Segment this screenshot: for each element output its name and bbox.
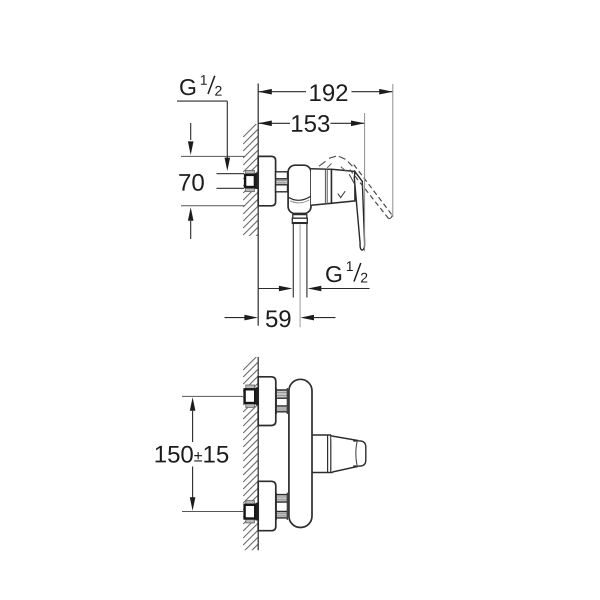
svg-text:1: 1: [200, 72, 208, 88]
dimension 153: [258, 122, 364, 124]
lever grip cone (plan): [331, 435, 358, 473]
extension line 153: [364, 113, 366, 251]
union nut (top view): [246, 170, 255, 173]
leader G1/2 top: [177, 101, 227, 158]
mixer body capsule (plan): [289, 379, 312, 527]
small tick mark: [349, 174, 355, 185]
body inner arc 2: [290, 200, 309, 203]
cartridge division line: [325, 169, 327, 204]
svg-text:150±15: 150±15: [154, 441, 230, 468]
svg-text:70: 70: [178, 170, 205, 197]
body inner arc: [288, 196, 310, 200]
upper connector threads (plan): [276, 390, 287, 398]
svg-text:G: G: [179, 74, 197, 100]
lever boss (plan): [312, 435, 333, 473]
svg-text:G: G: [325, 261, 343, 287]
inlet pipe (left of wall): [217, 174, 245, 189]
outlet nipple: [293, 215, 307, 219]
outlet centerline: [299, 225, 301, 328]
cartridge housing (top view): [311, 169, 332, 206]
wall line bottom view: [257, 357, 259, 550]
dimension 150±15: [182, 396, 245, 511]
extension line 192: [392, 84, 394, 217]
escutcheon (top view): [258, 156, 275, 205]
svg-text:2: 2: [360, 270, 368, 286]
lever boss division: [328, 435, 331, 472]
inner dashed fragment: [327, 164, 346, 172]
handle cone (top view): [332, 169, 355, 203]
connector threads (top view): [277, 179, 286, 185]
upper escutcheon (plan): [258, 377, 276, 426]
lever blade solid (top view): [354, 172, 364, 251]
dimension 70: [181, 156, 245, 205]
svg-text:192: 192: [308, 80, 348, 107]
dimension 192: [258, 91, 393, 93]
valve body (top view): [288, 165, 311, 213]
svg-text:153: 153: [290, 111, 330, 138]
dimension 59: [225, 317, 246, 319]
wall line top view: [257, 84, 259, 326]
lever dashed (raised position): [354, 165, 392, 216]
svg-text:2: 2: [214, 83, 222, 99]
wall hatching bottom view: [243, 355, 258, 573]
dashed rotation arc: [319, 156, 352, 166]
svg-text:1: 1: [346, 258, 354, 274]
wall hatching top view: [243, 122, 258, 263]
lever end cap (plan): [353, 441, 366, 466]
small v mark: [338, 191, 345, 197]
leader G1/2 bottom arrows at outlet pipe: [258, 288, 280, 290]
lower escutcheon (plan): [258, 481, 276, 530]
upper union nut (plan): [246, 385, 255, 389]
end cap inner arc: [356, 442, 357, 465]
svg-text:59: 59: [265, 306, 292, 333]
outlet pipe walls: [293, 224, 307, 298]
lower union nut (plan): [246, 501, 255, 505]
lower connector threads (plan): [276, 495, 287, 503]
